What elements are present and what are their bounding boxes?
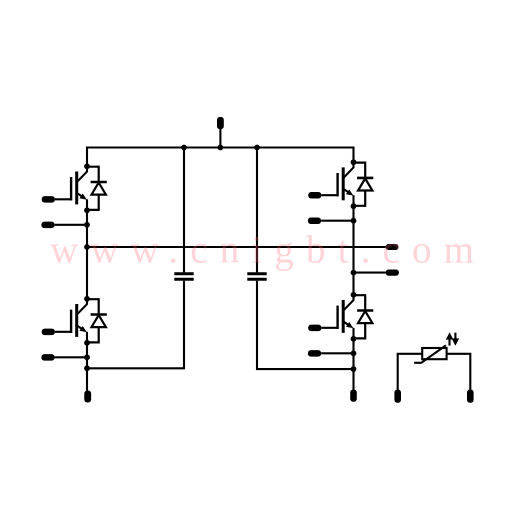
wire: phase-1 output bus bbox=[87, 246, 386, 248]
node: Q1 auxiliary emitter junction bbox=[84, 222, 90, 228]
node: Q1 emitter junction bbox=[84, 207, 90, 213]
wire: Q2 emitter down to N1 terminal bbox=[86, 343, 88, 391]
terminal G1 (gate pin) bbox=[42, 196, 55, 203]
wire: C2 upper branch bbox=[256, 148, 258, 273]
terminal N1 (left leg bottom pin) bbox=[84, 391, 91, 403]
transistor Q3 (IGBT) bbox=[321, 162, 353, 206]
terminal G4 (gate pin) bbox=[308, 325, 321, 332]
svg-text:www.cnigbt.com: www.cnigbt.com bbox=[50, 229, 474, 272]
terminal E4 (auxiliary emitter pin) bbox=[308, 350, 321, 357]
node: Q2 collector junction bbox=[84, 296, 90, 302]
node: bus / C1 branch junction bbox=[181, 145, 187, 151]
node: left leg negative rail junction bbox=[84, 365, 90, 371]
terminal T2 (thermistor pin 2) bbox=[467, 390, 474, 403]
wire: C2 lower branch to right rail bbox=[257, 281, 354, 369]
capacitor C2 bbox=[247, 274, 266, 280]
node: Q3 auxiliary emitter junction bbox=[351, 218, 357, 224]
wire: auxiliary emitter lead of Q3 bbox=[321, 220, 353, 222]
terminal E1 (auxiliary emitter pin) bbox=[41, 222, 54, 229]
node: left leg midpoint junction bbox=[84, 244, 90, 250]
node: bus / C2 branch junction bbox=[254, 145, 260, 151]
wire: C1 upper branch bbox=[183, 148, 185, 273]
terminal E3 (auxiliary emitter pin) bbox=[308, 218, 321, 225]
wire: Q4 emitter down to N2 terminal bbox=[352, 339, 354, 390]
capacitor C1 bbox=[174, 274, 193, 280]
wire: left leg midpoint (Q1 emitter to Q2 collector) bbox=[86, 210, 88, 298]
node: Q1 collector junction bbox=[84, 163, 90, 169]
transistor Q2 (IGBT) bbox=[55, 299, 87, 343]
terminal AC2 (phase-2 output pin) bbox=[386, 270, 399, 276]
wire: RT1 right lead bbox=[447, 354, 471, 390]
node: phase-2 output tap junction bbox=[351, 270, 357, 276]
node: Q4 auxiliary emitter junction bbox=[351, 350, 357, 356]
wire: phase-2 output lead bbox=[354, 272, 386, 274]
diode D4 (antiparallel freewheel) bbox=[354, 295, 374, 338]
wire: auxiliary emitter lead of Q2 bbox=[55, 356, 87, 358]
thermistor RT1 (NTC temperature sensor) bbox=[414, 345, 446, 362]
node: Q2 auxiliary emitter junction bbox=[84, 354, 90, 360]
terminal AC1 (phase-1 output pin) bbox=[386, 244, 399, 250]
node: Q4 emitter junction bbox=[351, 336, 357, 342]
transistor Q4 (IGBT) bbox=[321, 295, 353, 339]
wire: +DC top bus bbox=[87, 148, 354, 167]
diode D1 (antiparallel freewheel) bbox=[87, 167, 107, 210]
transistor Q1 (IGBT) bbox=[55, 166, 87, 210]
node: right leg negative rail junction bbox=[351, 366, 357, 372]
wire: RT1 left lead bbox=[398, 354, 423, 390]
node: Q2 emitter junction bbox=[84, 340, 90, 346]
wire: auxiliary emitter lead of Q4 bbox=[321, 352, 353, 354]
NTC arrows (inverse temperature dependence) bbox=[446, 332, 459, 346]
terminal N2 (right leg bottom pin) bbox=[350, 390, 357, 402]
terminal P (+DC top pin) bbox=[217, 117, 224, 148]
wire: right leg midpoint (Q3 emitter to Q4 collector) bbox=[352, 206, 354, 295]
diode D3 (antiparallel freewheel) bbox=[354, 163, 374, 206]
terminal T1 (thermistor pin 1) bbox=[394, 390, 401, 403]
node: Q4 collector junction bbox=[351, 292, 357, 298]
node: bus / P terminal junction bbox=[218, 145, 224, 151]
diode D2 (antiparallel freewheel) bbox=[87, 299, 107, 342]
terminal G3 (gate pin) bbox=[308, 192, 321, 199]
wire: C1 lower branch to left rail bbox=[87, 281, 184, 369]
terminal E2 (auxiliary emitter pin) bbox=[41, 354, 54, 361]
terminal G2 (gate pin) bbox=[42, 329, 55, 336]
node: Q3 emitter junction bbox=[351, 203, 357, 209]
node: Q3 collector junction bbox=[351, 159, 357, 165]
wire: auxiliary emitter lead of Q1 bbox=[55, 224, 87, 226]
